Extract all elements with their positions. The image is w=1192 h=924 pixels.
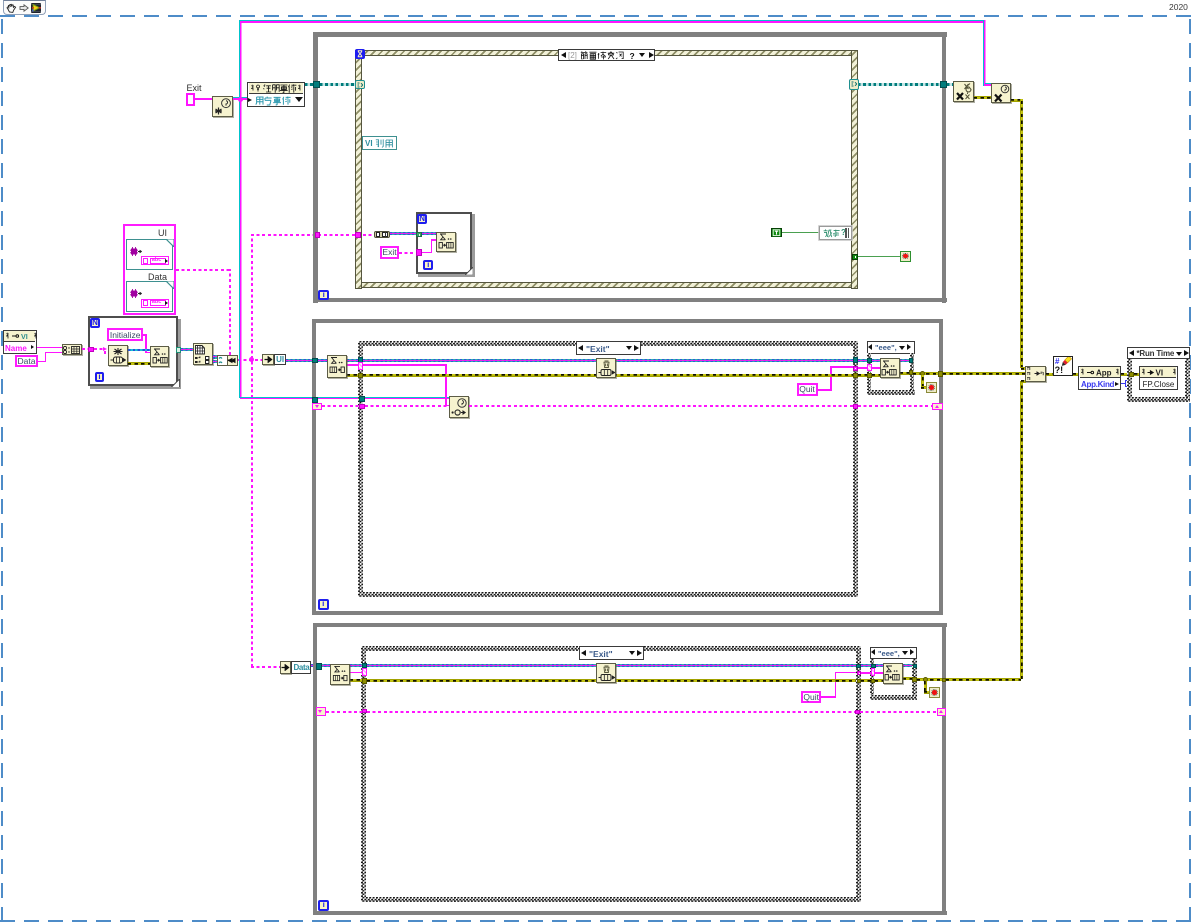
svg-text:VI: VI xyxy=(1156,368,1164,377)
svg-text:VI: VI xyxy=(21,332,28,340)
svg-text:App: App xyxy=(1096,368,1112,377)
